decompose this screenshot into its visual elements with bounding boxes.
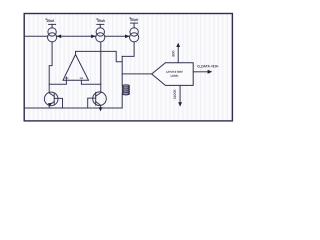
wire: ramp node to latch input xyxy=(122,73,152,75)
wire: I3 down to ramp node xyxy=(122,42,134,57)
transistor Q1 xyxy=(44,92,58,106)
wire: Q2 emitter to ground rail xyxy=(100,105,102,108)
wire: Q1 emitter to ground rail xyxy=(48,105,50,108)
current source I2 xyxy=(96,24,105,42)
latch block label line 2 xyxy=(171,75,178,77)
op-amp plus pin xyxy=(65,77,68,80)
wire: op-amp output to ramp node xyxy=(76,51,123,61)
wire: I1 down to Q1 collector node xyxy=(49,42,52,92)
instance label I3 xyxy=(130,17,132,19)
wire: O_DATA output xyxy=(193,71,208,73)
O_DATA net label xyxy=(197,65,218,68)
op-amp U1 xyxy=(63,55,89,81)
schematic sheet background xyxy=(24,14,232,121)
wire: Q2 base to ground rail xyxy=(88,98,96,108)
instance label I1 xyxy=(46,18,48,20)
status net label EOC xyxy=(172,51,174,57)
current source I3 xyxy=(130,23,139,42)
latch block label line 1 xyxy=(166,71,182,73)
wire: node A to op-amp inverting input xyxy=(49,80,66,84)
arrow into I2 xyxy=(91,35,96,39)
down arrowhead on clock line xyxy=(178,102,182,106)
value label 30uA xyxy=(97,19,105,21)
value label 20uA xyxy=(47,19,55,21)
transistor Q2 xyxy=(93,92,107,106)
resistor R1 xyxy=(122,85,129,95)
up arrowhead on status line xyxy=(176,43,180,47)
wire: Q1 base to ground rail xyxy=(54,98,62,108)
Q1 emitter arrow xyxy=(48,103,52,106)
wire: I2 down to Q2 collector node xyxy=(100,42,102,92)
wire: ramp node vertical into R1 xyxy=(121,56,123,85)
wire: clock down arrow xyxy=(179,85,181,103)
clock net label CLOCK xyxy=(174,90,176,99)
current source I1 xyxy=(48,24,57,42)
value label 50uA xyxy=(131,18,139,20)
instance label I2 xyxy=(96,18,98,20)
wire: R1 to ground rail xyxy=(121,95,123,108)
wire: I2 to I3 xyxy=(105,35,130,37)
latch and test logic block U2 xyxy=(152,63,194,86)
ground rail wire xyxy=(25,107,122,109)
arrow into I1 xyxy=(57,35,62,39)
wire: node B to op-amp non-inverting input xyxy=(81,80,100,84)
wire: status output up arrow xyxy=(177,46,179,62)
wire: I1 to I2 xyxy=(56,35,95,37)
Q2 emitter arrow xyxy=(99,107,103,111)
border frame xyxy=(24,14,232,121)
wire: left frame to I1 xyxy=(25,35,48,37)
arrow into I3 xyxy=(125,35,130,39)
op-amp minus pin xyxy=(80,77,83,79)
O_DATA arrowhead xyxy=(208,70,213,74)
